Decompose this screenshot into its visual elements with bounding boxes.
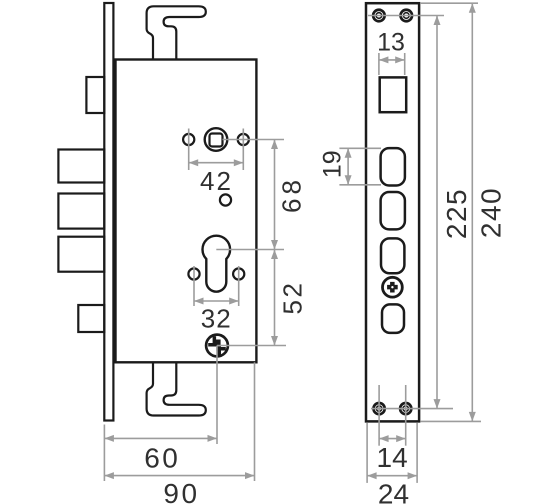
svg-text:68: 68 <box>277 176 307 213</box>
ext line screw center <box>217 345 286 347</box>
hole right of spindle <box>238 134 249 145</box>
svg-text:52: 52 <box>278 281 308 315</box>
ext line 32 left <box>193 266 195 306</box>
spindle square hole <box>210 134 223 147</box>
bottom screw right <box>400 403 411 414</box>
svg-text:24: 24 <box>378 479 409 504</box>
ext line plate top <box>420 2 478 4</box>
ext line 42 left <box>188 129 190 171</box>
ext line bottom left corner <box>103 425 105 482</box>
faceplate front <box>366 3 419 421</box>
ext line 14 right <box>405 385 407 446</box>
euro cylinder keyhole <box>202 236 230 292</box>
ext line 24 left <box>366 423 368 483</box>
ext line keyhole center <box>216 249 284 251</box>
rounded hole 3 <box>381 238 404 273</box>
dim line 225 <box>436 16 438 409</box>
svg-text:42: 42 <box>200 166 233 196</box>
spindle hub outer circle <box>205 128 228 151</box>
dim line 42 <box>189 162 244 164</box>
faceplate strip (left view) <box>104 3 113 421</box>
dim line 90 <box>104 475 254 477</box>
deadbolt block 3 <box>58 194 104 229</box>
dim line 68 <box>274 140 276 250</box>
hole right of keyhole <box>233 268 244 279</box>
ext line 24 right <box>416 423 418 483</box>
top screw right <box>401 10 413 22</box>
dim line 52 <box>274 250 276 346</box>
svg-text:32: 32 <box>201 304 232 334</box>
dim line 19 <box>347 148 349 185</box>
ext line 32 right <box>238 266 240 306</box>
rounded hole 4 <box>382 304 404 333</box>
ext line 42 right <box>242 129 244 171</box>
cross screw on plate <box>383 277 403 297</box>
ext line 19 top <box>339 147 381 149</box>
svg-text:240: 240 <box>475 187 506 238</box>
hook bolt top <box>147 6 206 59</box>
ext line 14 left <box>378 385 380 446</box>
fixing screw left view circle <box>206 335 228 357</box>
dim line 24 <box>367 475 417 477</box>
ext line 13 left <box>378 53 380 75</box>
dim line 32 <box>194 300 239 302</box>
ext line case right corner down <box>254 362 256 481</box>
bottom screw left <box>374 403 385 414</box>
dim line 13 <box>379 59 405 61</box>
fixing screw cross (stepped phillips) <box>208 336 226 356</box>
dim line 60 <box>104 437 217 439</box>
svg-text:13: 13 <box>377 28 405 56</box>
ext line spindle to 68 <box>223 139 285 141</box>
rounded hole 1 <box>381 148 405 185</box>
ext line 19 bottom <box>339 184 381 186</box>
svg-text:19: 19 <box>319 150 347 178</box>
rounded hole 2 <box>381 192 405 229</box>
deadbolt block 2 <box>58 150 104 183</box>
svg-text:60: 60 <box>144 443 180 474</box>
top screw left <box>373 10 385 22</box>
svg-text:225: 225 <box>441 188 472 239</box>
dimension linework <box>104 3 481 483</box>
square latch hole <box>380 77 407 112</box>
labels <box>200 166 308 334</box>
deadbolt block small top <box>86 77 104 113</box>
block small bottom <box>78 305 104 332</box>
right view <box>366 3 419 421</box>
ext line plate bottom <box>421 420 481 422</box>
ext line bottom screws <box>371 408 453 410</box>
dim line 14 <box>379 438 406 440</box>
dim line 240 <box>471 3 473 421</box>
ext line top screws right view <box>368 15 444 17</box>
svg-text:90: 90 <box>163 478 199 504</box>
hook bolt bottom <box>147 362 206 415</box>
hole left of spindle <box>183 134 194 145</box>
svg-text:14: 14 <box>377 442 408 473</box>
hole left of keyhole <box>188 268 199 279</box>
ext line 13 right <box>404 53 406 75</box>
lock case body <box>116 60 257 363</box>
small hole below 42 <box>220 194 231 205</box>
ext line screw down <box>216 346 218 445</box>
deadbolt block 4 <box>58 237 104 272</box>
